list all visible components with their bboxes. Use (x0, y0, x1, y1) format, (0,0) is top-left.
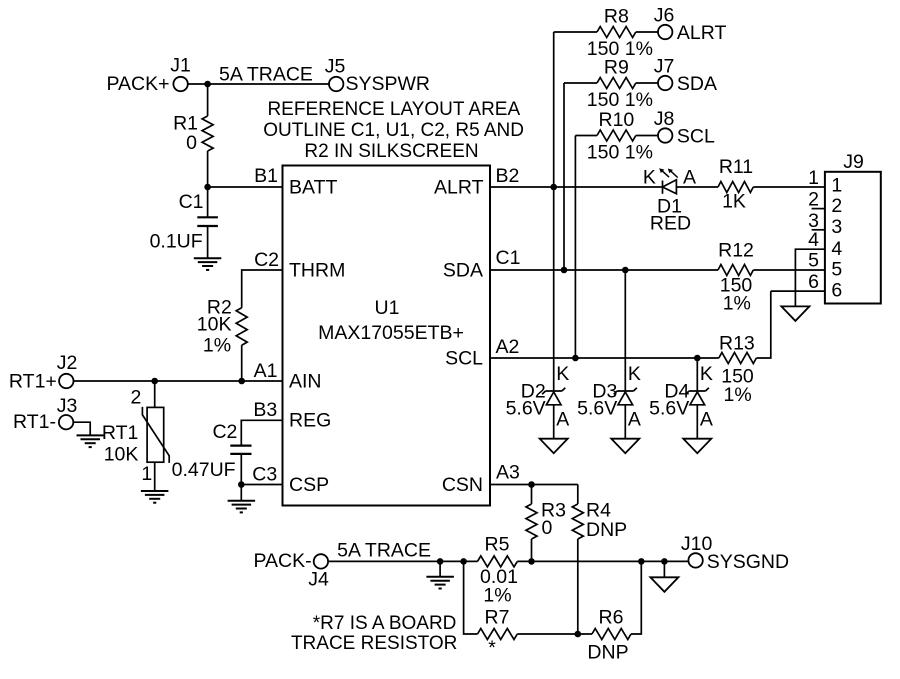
ground (650, 577, 678, 592)
svg-text:SYSPWR: SYSPWR (346, 73, 431, 95)
svg-text:0: 0 (542, 517, 553, 539)
svg-text:K: K (556, 363, 569, 385)
svg-text:1%: 1% (483, 585, 511, 607)
junction (694, 355, 701, 362)
svg-text:J7: J7 (654, 56, 675, 78)
svg-text:C2: C2 (254, 249, 279, 271)
svg-text:SCL: SCL (677, 126, 715, 148)
svg-text:4: 4 (831, 238, 842, 260)
svg-text:K: K (700, 363, 713, 385)
wire (490, 484, 578, 486)
ground (77, 435, 105, 447)
svg-text:*: * (488, 637, 496, 659)
connector J3 (57, 395, 78, 430)
svg-text:PACK+: PACK+ (106, 73, 169, 95)
wire (676, 186, 718, 188)
connector J5 (325, 56, 346, 92)
svg-text:1%: 1% (723, 292, 751, 314)
svg-text:R10: R10 (599, 109, 635, 131)
svg-text:RT1+: RT1+ (9, 371, 57, 393)
pin label 1 (808, 167, 819, 189)
note text (263, 99, 524, 162)
svg-text:3: 3 (831, 216, 842, 238)
svg-text:J3: J3 (57, 395, 78, 417)
label RT1- (13, 411, 56, 433)
svg-text:5.6V: 5.6V (506, 398, 546, 420)
svg-text:0: 0 (186, 132, 197, 154)
svg-text:10K: 10K (197, 314, 232, 336)
svg-text:J8: J8 (654, 108, 675, 130)
ground (426, 577, 454, 589)
svg-text:C1: C1 (179, 191, 204, 213)
svg-text:C2: C2 (212, 421, 237, 443)
junction (661, 558, 668, 565)
pin stub 4 (795, 229, 825, 306)
ground (683, 439, 711, 454)
wire (631, 561, 641, 634)
svg-text:A: A (628, 408, 641, 430)
ground (141, 491, 169, 503)
svg-text:2: 2 (831, 195, 842, 217)
svg-text:1: 1 (831, 175, 842, 197)
junction (437, 558, 444, 565)
svg-text:SYSGND: SYSGND (707, 551, 789, 573)
resistor R5 (478, 533, 518, 606)
svg-text:CSN: CSN (442, 474, 483, 496)
svg-text:A2: A2 (496, 336, 520, 358)
svg-text:K: K (643, 166, 656, 188)
svg-text:1%: 1% (203, 335, 231, 357)
svg-text:J5: J5 (325, 56, 346, 78)
resistor R2 (197, 297, 247, 357)
wire (753, 269, 825, 271)
label 5A TRACE (337, 540, 431, 562)
junction (550, 184, 557, 191)
svg-text:0.47UF: 0.47UF (172, 459, 236, 481)
wire (663, 561, 665, 577)
wire (74, 380, 283, 382)
capacitor C2 (172, 421, 252, 481)
wire (154, 462, 156, 491)
svg-text:RED: RED (650, 213, 691, 235)
svg-text:RT1-: RT1- (13, 411, 56, 433)
wire (490, 269, 718, 271)
connector J8 (654, 108, 675, 143)
junction (561, 267, 568, 274)
label SCL (677, 126, 715, 148)
svg-text:A3: A3 (496, 462, 520, 484)
resistor R3 (526, 499, 566, 539)
resistor R10 (575, 109, 658, 163)
junction (204, 184, 211, 191)
resistor R4 (572, 499, 627, 540)
svg-text:R9: R9 (604, 57, 629, 79)
svg-text:OUTLINE C1, U1, C2, R5 AND: OUTLINE C1, U1, C2, R5 AND (263, 120, 524, 141)
pin C2 (254, 249, 279, 271)
wire (73, 422, 90, 435)
svg-text:C3: C3 (252, 464, 277, 486)
junction (238, 481, 245, 488)
wire (240, 454, 242, 485)
resistor R7 (478, 607, 518, 659)
label 5A TRACE (219, 64, 313, 86)
resistor R9 (564, 57, 658, 111)
connector J10 (681, 533, 713, 568)
svg-text:A: A (683, 166, 696, 188)
svg-text:2: 2 (808, 189, 819, 211)
wire (464, 561, 478, 634)
led D1 (643, 166, 696, 234)
wire (490, 357, 719, 359)
svg-text:J2: J2 (57, 352, 78, 374)
svg-text:R13: R13 (719, 333, 755, 355)
connector J1 (170, 55, 191, 92)
pin B3 (253, 399, 277, 421)
svg-text:REFERENCE LAYOUT AREA: REFERENCE LAYOUT AREA (267, 99, 520, 120)
junction (572, 355, 579, 362)
pin label 5 (808, 250, 819, 272)
label SDA (677, 73, 717, 95)
pin stub 3 (808, 210, 825, 232)
svg-text:R11: R11 (719, 156, 753, 178)
label RT1+ (9, 371, 57, 393)
svg-text:5: 5 (808, 250, 819, 272)
resistor R1 (173, 113, 213, 155)
pin C3 (252, 464, 277, 486)
svg-text:0.1UF: 0.1UF (150, 231, 203, 253)
svg-text:2: 2 (130, 387, 141, 409)
junction (575, 631, 582, 638)
svg-text:RT1: RT1 (102, 422, 139, 444)
wire (756, 291, 770, 358)
resistor R13 (719, 333, 757, 406)
connector J6 (654, 5, 675, 40)
connector J9 (825, 151, 881, 304)
resistor R11 (718, 156, 753, 213)
pin A2 (496, 336, 520, 358)
connector J4 (308, 554, 329, 590)
svg-text:SDA: SDA (677, 73, 717, 95)
wire (241, 420, 282, 445)
wire (241, 345, 243, 381)
wire (490, 186, 663, 188)
svg-text:A: A (700, 408, 713, 430)
wire (328, 560, 477, 562)
svg-text:J9: J9 (843, 151, 864, 173)
pin stub 2 (808, 189, 825, 211)
svg-text:CSP: CSP (289, 474, 329, 496)
svg-text:5.6V: 5.6V (649, 398, 689, 420)
svg-text:B1: B1 (254, 165, 278, 187)
note text (291, 613, 457, 654)
wire (517, 633, 592, 635)
ground (194, 258, 222, 270)
svg-text:SDA: SDA (443, 259, 483, 281)
wire (208, 186, 283, 188)
svg-text:U1: U1 (375, 297, 400, 319)
wire (439, 561, 441, 576)
svg-text:SCL: SCL (445, 348, 483, 370)
thermistor RT1 (102, 381, 169, 485)
svg-text:J6: J6 (654, 5, 675, 27)
svg-text:TRACE RESISTOR: TRACE RESISTOR (291, 633, 457, 654)
junction (151, 378, 158, 385)
svg-text:A: A (556, 408, 569, 430)
svg-text:1K: 1K (722, 191, 746, 213)
svg-text:10K: 10K (104, 444, 139, 466)
svg-text:J1: J1 (170, 55, 191, 77)
svg-text:A1: A1 (254, 360, 278, 382)
svg-text:THRM: THRM (289, 259, 345, 281)
pin B1 (254, 165, 278, 187)
wire (241, 484, 282, 486)
svg-text:4: 4 (808, 229, 819, 251)
svg-text:150 1%: 150 1% (587, 142, 653, 164)
svg-text:1: 1 (808, 167, 819, 189)
diode D3 (577, 270, 641, 439)
svg-text:PACK-: PACK- (253, 550, 311, 572)
label SYSGND (707, 551, 789, 573)
wire (207, 226, 209, 258)
wire (553, 32, 555, 187)
svg-text:REG: REG (289, 410, 331, 432)
junction (238, 378, 245, 385)
svg-text:1: 1 (141, 463, 152, 485)
svg-text:AIN: AIN (289, 370, 322, 392)
wire (753, 186, 825, 188)
wire (577, 539, 579, 634)
svg-text:R2 IN SILKSCREEN: R2 IN SILKSCREEN (304, 141, 478, 162)
wire (531, 485, 533, 505)
label ALRT (677, 22, 727, 44)
svg-text:B2: B2 (496, 165, 520, 187)
pin B2 (496, 165, 520, 187)
svg-text:R6: R6 (599, 607, 624, 629)
svg-text:MAX17055ETB+: MAX17055ETB+ (318, 322, 464, 344)
svg-text:R5: R5 (485, 533, 510, 555)
svg-text:R8: R8 (604, 6, 629, 28)
svg-text:BATT: BATT (289, 176, 337, 198)
pin A1 (254, 360, 278, 382)
svg-text:5A TRACE: 5A TRACE (219, 64, 313, 86)
connector J2 (57, 352, 78, 388)
pin C1 (496, 247, 521, 269)
label PACK+ (106, 73, 169, 95)
label PACK- (253, 550, 311, 572)
wire (240, 485, 242, 501)
svg-text:150 1%: 150 1% (587, 89, 653, 111)
resistor R8 (554, 6, 658, 60)
ground (781, 306, 809, 321)
wire (517, 560, 688, 562)
svg-text:ALRT: ALRT (677, 22, 727, 44)
svg-text:B3: B3 (253, 399, 277, 421)
resistor R12 (718, 239, 754, 314)
wire (207, 151, 209, 187)
junction (204, 81, 211, 88)
wire (531, 539, 533, 561)
svg-text:ALRT: ALRT (434, 176, 484, 198)
connector J7 (654, 56, 675, 91)
junction (460, 558, 467, 565)
ground (228, 501, 256, 513)
svg-text:R12: R12 (718, 239, 754, 261)
svg-text:6: 6 (808, 271, 819, 293)
junction (638, 558, 645, 565)
svg-text:DNP: DNP (587, 641, 628, 663)
wire (242, 270, 283, 308)
wire (188, 83, 329, 85)
diode D2 (506, 187, 570, 439)
svg-text:1%: 1% (724, 384, 752, 406)
svg-text:5A TRACE: 5A TRACE (337, 540, 431, 562)
pin stub 6 (771, 271, 825, 293)
junction (622, 267, 629, 274)
label SYSPWR (346, 73, 431, 95)
op-amp U1 MAX17055ETB+ (283, 166, 491, 506)
wire (207, 84, 209, 116)
svg-text:6: 6 (831, 280, 842, 302)
svg-text:*R7 IS A BOARD: *R7 IS A BOARD (313, 613, 457, 634)
svg-text:R7: R7 (485, 607, 510, 629)
svg-text:5: 5 (831, 259, 842, 281)
capacitor C1 (150, 187, 218, 253)
ground (540, 439, 568, 454)
diode D4 (649, 358, 713, 439)
svg-text:5.6V: 5.6V (577, 398, 617, 420)
junction (528, 558, 535, 565)
svg-text:K: K (628, 363, 641, 385)
pin A3 (496, 462, 520, 484)
svg-text:DNP: DNP (586, 519, 627, 541)
junction (528, 481, 535, 488)
ground (611, 439, 639, 454)
svg-text:C1: C1 (496, 247, 521, 269)
resistor R6 (587, 607, 631, 664)
wire (563, 83, 565, 270)
wire (574, 136, 576, 359)
wire (577, 485, 579, 505)
